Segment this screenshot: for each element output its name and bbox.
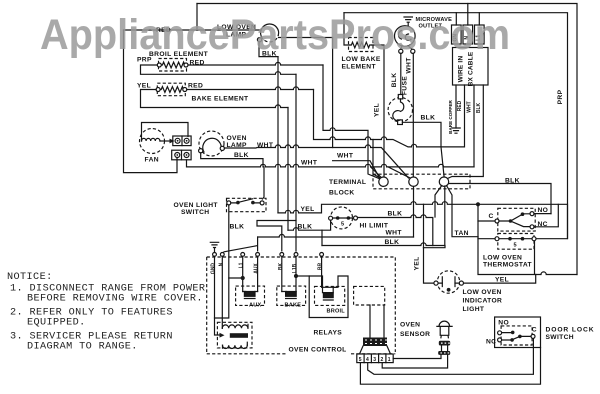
svg-text:BR: BR bbox=[318, 263, 324, 271]
wire inner border down to low bake element bbox=[344, 13, 350, 45]
thermostat low oven thermostat box bbox=[478, 237, 577, 275]
wire lamp output to mid rail bbox=[279, 38, 333, 148]
svg-text:AppliancePartsPros.com: AppliancePartsPros.com bbox=[40, 12, 510, 59]
svg-text:BEFORE REMOVING WIRE COVER.: BEFORE REMOVING WIRE COVER. bbox=[27, 294, 203, 305]
svg-text:4: 4 bbox=[366, 357, 369, 363]
wire oven light switch to neutral run bbox=[262, 167, 264, 199]
node terminal 2 bbox=[409, 177, 418, 186]
wire rail D down and across to terminal block merge bbox=[314, 90, 442, 147]
node control terminal L1 bbox=[241, 253, 245, 257]
svg-text:TERMINAL: TERMINAL bbox=[329, 179, 366, 186]
wire transformer secondary to strip bbox=[223, 342, 248, 348]
node outlet left terminal bbox=[399, 49, 403, 53]
wire connector P2 to neutral run bbox=[187, 160, 475, 167]
wire AUX drop to control terminal bbox=[257, 237, 259, 251]
wire L1 terminal drop to junction bbox=[229, 256, 243, 291]
wire BR terminal drop into broil relay bbox=[321, 256, 323, 287]
transformer (dashed box, coils, core) bbox=[217, 322, 252, 348]
wire lamp BLK drop to rail A bbox=[259, 42, 278, 57]
wire YEL run from rail A to thermostat bbox=[278, 202, 568, 239]
wire BLK run to hairpin bbox=[322, 243, 445, 248]
svg-text:PRP: PRP bbox=[557, 89, 564, 104]
node control terminal GND bbox=[213, 253, 217, 257]
wire relay outputs down to connector strip bbox=[370, 305, 384, 338]
svg-text:DIAGRAM TO RANGE.: DIAGRAM TO RANGE. bbox=[27, 342, 138, 353]
wire L1B terminal drop to junction bbox=[295, 256, 297, 291]
motor fan (dashed circle with coil) bbox=[140, 129, 165, 154]
svg-text:OVEN: OVEN bbox=[400, 322, 420, 329]
svg-text:RED: RED bbox=[457, 100, 463, 111]
wire oven lamp BLK drop bbox=[201, 153, 263, 167]
wire terminal 3 diagonal to TAN drop bbox=[447, 186, 479, 237]
svg-text:RELAYS: RELAYS bbox=[314, 330, 343, 337]
svg-text:BARE COPPER: BARE COPPER bbox=[448, 99, 453, 133]
wire left rail down to fan connector bbox=[124, 30, 178, 173]
junction L1B dot bbox=[294, 274, 298, 278]
resistor low bake element bbox=[349, 38, 374, 52]
wire broil RED to rail B bbox=[188, 62, 323, 65]
svg-text:BK: BK bbox=[278, 263, 284, 271]
switch hi-limit (dashed circle) bbox=[331, 207, 353, 229]
wire low bake YEL to terminal 1 bbox=[372, 45, 384, 176]
svg-text:5: 5 bbox=[514, 243, 517, 249]
connector strip 5-4-3-2-1 bbox=[357, 354, 393, 363]
svg-text:RED: RED bbox=[188, 83, 203, 90]
switch thermostat upper contacts bbox=[498, 208, 535, 231]
switch oven light switch bbox=[227, 198, 267, 211]
svg-text:AUX: AUX bbox=[254, 263, 260, 274]
node terminal 3 bbox=[439, 177, 448, 186]
enclosure broil relay solid outline bbox=[309, 276, 348, 318]
ground bare copper ground bbox=[452, 128, 460, 133]
wire rail B down and across to terminal 1 bbox=[323, 65, 380, 179]
connector ribbon header (hatched) bbox=[363, 338, 387, 347]
svg-text:WHT: WHT bbox=[406, 57, 413, 74]
wire fuse BLK out to terminal 3 bbox=[402, 122, 444, 176]
svg-text:YEL: YEL bbox=[137, 83, 151, 90]
sensor oven sensor probe bbox=[437, 321, 452, 338]
wire bake RED to rail D bbox=[187, 87, 314, 90]
svg-text:C: C bbox=[489, 213, 494, 220]
wire L1B feed to broil enclosure bbox=[296, 275, 309, 277]
svg-text:WHT: WHT bbox=[386, 230, 403, 237]
wire fan feed loop to connector P1 bbox=[142, 123, 189, 142]
svg-text:DOOR LOCK: DOOR LOCK bbox=[546, 327, 595, 334]
node oven lamp left terminal bbox=[199, 149, 203, 153]
svg-text:YEL: YEL bbox=[495, 277, 509, 284]
svg-text:BLK: BLK bbox=[298, 224, 313, 231]
svg-text:NO: NO bbox=[538, 207, 549, 214]
svg-text:NOTICE:: NOTICE: bbox=[7, 272, 53, 283]
junction L1 dot bbox=[241, 276, 245, 280]
svg-text:WHT: WHT bbox=[466, 101, 472, 112]
terminal-box L1 lug bbox=[475, 25, 485, 44]
wire strip pin1 to oven sensor bbox=[393, 355, 441, 359]
svg-text:SWITCH: SWITCH bbox=[546, 334, 574, 341]
fuse FUSE (dashed circle with S element) bbox=[388, 98, 412, 122]
wire L1 inner top border to PRP rail bbox=[344, 13, 568, 239]
wire strip pin4 to door lock C bbox=[368, 339, 534, 375]
wire indicator light YEL to thermostat bbox=[464, 275, 536, 284]
svg-text:LOW OVEN: LOW OVEN bbox=[463, 289, 502, 296]
wire thermostat common drop bbox=[477, 204, 479, 237]
wire fan coil to connector P1 with arrow bbox=[160, 140, 173, 142]
wire strip pin2 to oven sensor return bbox=[382, 355, 447, 368]
wire BX WHT to neutral run bbox=[473, 85, 475, 167]
wire neutral diagonal into terminal 1 bbox=[371, 167, 381, 177]
switch thermostat lower contacts bbox=[498, 234, 534, 250]
svg-text:L1: L1 bbox=[239, 262, 245, 268]
svg-text:TAN: TAN bbox=[455, 230, 469, 237]
wire YEL branch down to indicator light bbox=[423, 204, 425, 247]
svg-text:BLK: BLK bbox=[230, 224, 245, 231]
svg-text:YEL: YEL bbox=[301, 206, 315, 213]
wire hi-limit BLK left run from rail E bbox=[288, 220, 331, 230]
svg-text:WIRE IN: WIRE IN bbox=[458, 56, 465, 83]
svg-text:WHT: WHT bbox=[337, 153, 354, 160]
svg-text:WHT: WHT bbox=[257, 142, 274, 149]
wire BX BLK to terminal 3 bbox=[448, 85, 484, 179]
wire GND terminal drop bbox=[214, 256, 216, 318]
wire WHT run to control AUX bbox=[258, 234, 414, 237]
wire rail A (from low oven lamp BLK) down to YEL run bbox=[277, 57, 279, 213]
wire elbow from rail C to control terminal B bbox=[257, 221, 296, 251]
resistor bake element bbox=[157, 83, 185, 96]
svg-text:BLK: BLK bbox=[505, 178, 520, 185]
relay BROIL (dashed box with coil) bbox=[315, 286, 345, 305]
lamp low oven lamp (dashed circle with arc) bbox=[261, 24, 279, 36]
svg-text:N: N bbox=[218, 262, 224, 266]
svg-text:BLK: BLK bbox=[385, 239, 400, 246]
wire AUX terminal drop to relay bbox=[257, 256, 259, 291]
wire rail C (PRP) down to control terminal L1B bbox=[295, 74, 297, 251]
junction YEL tap dot bbox=[476, 202, 480, 206]
svg-text:INDICATOR: INDICATOR bbox=[463, 298, 503, 305]
svg-text:SWITCH: SWITCH bbox=[181, 209, 209, 216]
wire N terminal drop to transformer bbox=[221, 256, 223, 328]
node control terminal L1B bbox=[294, 253, 298, 257]
connector P2 (fan plug lower) bbox=[172, 150, 191, 160]
wire NC up to YEL run bbox=[534, 204, 558, 227]
svg-text:BLK: BLK bbox=[476, 102, 482, 113]
svg-text:YEL: YEL bbox=[414, 256, 421, 270]
wire mid stub into terminal 1 bbox=[333, 161, 380, 179]
svg-text:BAKE ELEMENT: BAKE ELEMENT bbox=[192, 96, 250, 103]
svg-text:ELEMENT: ELEMENT bbox=[342, 64, 377, 71]
svg-text:NO: NO bbox=[498, 319, 509, 326]
switch door lock (solid box) bbox=[495, 317, 541, 348]
relay spare (empty dashed box) bbox=[354, 286, 385, 305]
wire NO to BLK feed bbox=[534, 213, 551, 215]
ground microwave outlet ground bbox=[404, 17, 412, 26]
svg-text:YEL: YEL bbox=[374, 103, 381, 117]
svg-text:LOW OVEN: LOW OVEN bbox=[483, 255, 522, 262]
lamp low oven indicator light bbox=[437, 271, 459, 293]
node control terminal AUX bbox=[256, 253, 260, 257]
wire terminal 3 BLK to door latch NO feed bbox=[449, 184, 551, 214]
terminal-box N lug bbox=[463, 25, 473, 44]
node low oven lamp terminal bbox=[257, 38, 261, 42]
wire L2 outer top/right border bbox=[197, 4, 577, 275]
svg-text:5: 5 bbox=[359, 357, 362, 363]
junction-box WIRE IN BX CABLE bbox=[453, 48, 489, 86]
svg-text:BLK: BLK bbox=[421, 115, 436, 122]
node outlet right terminal bbox=[411, 49, 415, 53]
svg-text:BLK: BLK bbox=[234, 152, 249, 159]
wire bare copper to ground bbox=[455, 85, 457, 128]
svg-text:WHT: WHT bbox=[301, 160, 318, 167]
wire terminal 2 drop to WHT run bbox=[413, 187, 415, 238]
node control terminal BR bbox=[320, 253, 324, 257]
wire from outer border down to RED feed bbox=[196, 4, 198, 31]
wire WHT link at junction bbox=[321, 230, 323, 245]
svg-text:FUSE: FUSE bbox=[402, 76, 409, 95]
svg-text:L1B: L1B bbox=[292, 263, 298, 273]
svg-text:HI LIMIT: HI LIMIT bbox=[360, 223, 389, 230]
relay AUX (dashed box with coil) bbox=[236, 286, 265, 305]
lamp oven lamp (dashed circle with filament arc) bbox=[199, 131, 224, 156]
outlet microwave outlet bbox=[395, 26, 416, 47]
svg-text:OVEN CONTROL: OVEN CONTROL bbox=[289, 347, 347, 354]
wire terminal 3 diagonal to hi-limit BLK run bbox=[435, 186, 442, 218]
wire BX RED to terminal block bbox=[441, 85, 465, 147]
svg-text:FAN: FAN bbox=[145, 157, 159, 164]
wire rail E down to hi-limit BLK run bbox=[287, 108, 289, 231]
wire outlet WHT down to terminal 2 bbox=[412, 53, 414, 177]
wire hi-limit BLK right run bbox=[358, 215, 433, 246]
svg-text:AUX: AUX bbox=[249, 303, 261, 309]
wire C to thermostat drop bbox=[478, 220, 495, 222]
svg-text:EQUIPPED.: EQUIPPED. bbox=[27, 318, 86, 329]
wire drop from RED run into terminal 1 bbox=[373, 140, 382, 179]
svg-text:C: C bbox=[532, 326, 537, 333]
svg-text:2: 2 bbox=[381, 357, 384, 363]
wire bake YEL loop to rail E bbox=[141, 90, 289, 108]
wire oven lamp WHT to terminal 2 bbox=[224, 145, 408, 178]
node terminal 1 bbox=[379, 177, 388, 186]
node control terminal N bbox=[220, 253, 224, 257]
svg-text:THERMOSTAT: THERMOSTAT bbox=[483, 262, 533, 269]
node control terminal BK bbox=[280, 253, 284, 257]
wire N diagonal link bbox=[224, 246, 257, 252]
svg-text:LIGHT: LIGHT bbox=[463, 306, 485, 313]
node oven lamp right terminal bbox=[220, 146, 224, 150]
svg-text:5: 5 bbox=[341, 222, 344, 228]
svg-text:OVEN: OVEN bbox=[227, 135, 247, 142]
wire strip pin5 to door lock frame bbox=[360, 348, 540, 385]
svg-text:1: 1 bbox=[388, 357, 391, 363]
svg-text:BLK: BLK bbox=[391, 73, 398, 88]
svg-text:BROIL: BROIL bbox=[327, 309, 346, 315]
connector P1 (fan plug upper) bbox=[173, 136, 191, 146]
resistor broil element bbox=[159, 59, 187, 72]
wire BK terminal drop to relay bbox=[281, 256, 283, 291]
wire terminal 3 drop to BLK hairpin bbox=[444, 186, 446, 246]
relay BAKE (dashed box with coil) bbox=[277, 286, 306, 305]
terminal-box GND lug bbox=[452, 25, 462, 44]
svg-text:OVEN LIGHT: OVEN LIGHT bbox=[174, 202, 219, 209]
wire YEL to indicator light bbox=[424, 248, 434, 283]
terminal-block dashed outline bbox=[373, 174, 470, 189]
wire oven light switch BLK down into control bbox=[215, 205, 229, 335]
svg-text:BLK: BLK bbox=[388, 211, 403, 218]
wire broil PRP loop to rail C bbox=[141, 65, 297, 74]
wire RED feed to low oven lamp bbox=[124, 29, 262, 31]
wire neutral diagonal into terminal 2 bbox=[388, 167, 411, 178]
svg-text:BAKE: BAKE bbox=[285, 303, 302, 309]
wire outlet BLK down to fuse bbox=[400, 53, 402, 94]
control-box oven control dashed outline bbox=[207, 257, 396, 354]
svg-text:BLOCK: BLOCK bbox=[329, 190, 355, 197]
svg-text:GND: GND bbox=[211, 263, 217, 275]
svg-text:3: 3 bbox=[373, 357, 376, 363]
svg-text:NC: NC bbox=[486, 338, 496, 345]
svg-text:SENSOR: SENSOR bbox=[400, 331, 430, 338]
ground control board ground bbox=[210, 242, 218, 252]
